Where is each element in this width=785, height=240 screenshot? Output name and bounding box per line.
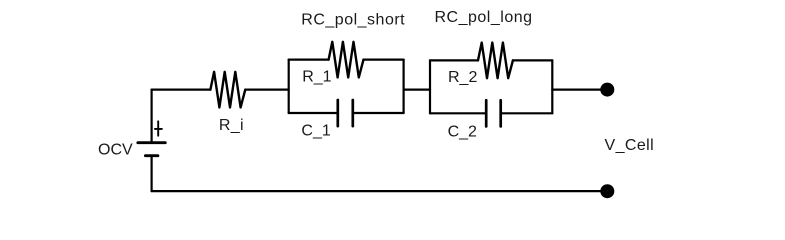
svg-text:C_2: C_2 [448, 124, 477, 141]
capacitor C_1 (bottom branch with leads) [289, 100, 404, 126]
wire battery positive to top corner [151, 90, 153, 143]
wire RC_pol_short to RC_pol_long [404, 88, 430, 90]
voltage source OCV (battery) [138, 121, 166, 155]
wire right edge of RC_pol_short [403, 60, 405, 113]
wire battery negative down [151, 156, 153, 191]
node positive terminal dot [600, 83, 614, 97]
svg-text:R_i: R_i [219, 117, 244, 134]
wire right edge of RC_pol_long [551, 60, 553, 113]
svg-text:R_1: R_1 [302, 69, 331, 86]
wire top horizontal to R_i [152, 88, 211, 90]
wire R_i to RC_pol_short [245, 88, 288, 90]
svg-text:V_Cell: V_Cell [605, 137, 655, 154]
wire RC_pol_long to positive terminal [552, 88, 601, 90]
svg-text:C_1: C_1 [301, 122, 330, 139]
node negative terminal dot [600, 184, 614, 198]
svg-text:OCV: OCV [98, 142, 133, 159]
wire bottom return [152, 190, 601, 192]
svg-text:RC_pol_short: RC_pol_short [301, 12, 405, 29]
svg-text:R_2: R_2 [448, 69, 477, 86]
wire left edge of RC_pol_short [288, 60, 290, 113]
resistor R_i [210, 72, 245, 108]
capacitor C_2 (bottom branch with leads) [430, 100, 552, 126]
svg-text:RC_pol_long: RC_pol_long [435, 9, 533, 26]
resistor R_2 (top branch with leads) [430, 43, 552, 79]
resistor R_1 (top branch with leads) [289, 42, 404, 78]
wire left edge of RC_pol_long [429, 60, 431, 113]
